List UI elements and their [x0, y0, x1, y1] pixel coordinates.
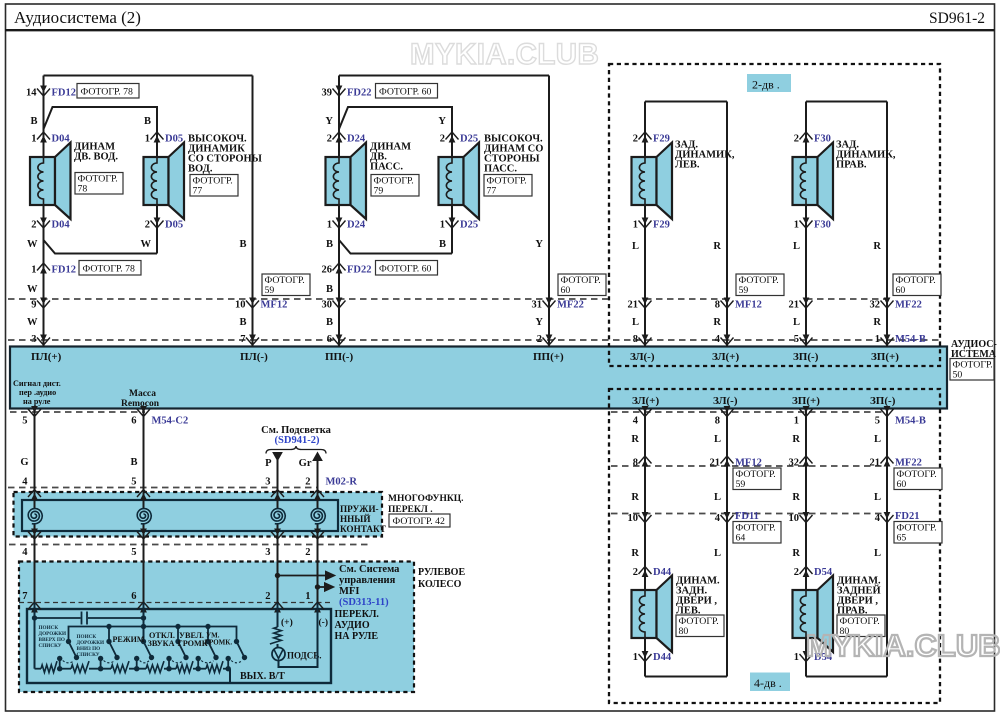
wire remote signal G	[34, 409, 36, 493]
connector MF22 pin 31	[543, 301, 556, 309]
node on P wire to MFI	[275, 573, 280, 578]
svg-text:L: L	[714, 434, 721, 445]
svg-text:79: 79	[374, 186, 384, 197]
svg-text:B: B	[144, 116, 151, 127]
feed drop УВЕЛ ГРОМК	[177, 627, 179, 642]
svg-text:Y: Y	[535, 317, 543, 328]
svg-text:1: 1	[633, 220, 638, 231]
connector M54 pin 9	[37, 301, 50, 309]
svg-text:L: L	[714, 548, 721, 559]
connector D24 pin 1	[333, 221, 346, 229]
steering wheel dashed box	[19, 562, 414, 693]
svg-text:65: 65	[897, 533, 907, 544]
multifunction pin 3 top	[271, 490, 284, 498]
switch S4 contact tap	[168, 659, 170, 669]
svg-text:2: 2	[794, 134, 799, 145]
svg-text:MF22: MF22	[557, 300, 584, 311]
svg-text:2: 2	[633, 134, 638, 145]
switch S1 gap arc	[63, 661, 74, 663]
svg-text:R: R	[631, 492, 639, 503]
multifunction pin 4 bottom	[28, 532, 41, 540]
svg-text:8: 8	[633, 334, 638, 345]
svg-text:FD21: FD21	[895, 511, 920, 522]
harness dashed line y299	[8, 298, 611, 300]
speaker D44 rear left door	[632, 590, 657, 638]
svg-text:D05: D05	[165, 134, 183, 145]
connector F30 pin 2	[800, 132, 813, 140]
svg-text:Gr: Gr	[299, 458, 312, 469]
svg-text:B: B	[439, 239, 446, 250]
svg-text:77: 77	[193, 186, 203, 197]
svg-text:1: 1	[875, 334, 880, 345]
connector MF22 pin 21 4dv	[881, 456, 894, 464]
connector MF12 pin 21 2dv	[639, 301, 652, 309]
svg-text:64: 64	[736, 533, 746, 544]
svg-text:21: 21	[789, 300, 800, 311]
svg-text:F30: F30	[814, 220, 831, 231]
svg-text:Y: Y	[438, 116, 446, 127]
svg-text:D05: D05	[165, 220, 183, 231]
bus pin 1 M54-B	[881, 338, 894, 346]
svg-text:ФОТОГР. 42: ФОТОГР. 42	[393, 516, 446, 527]
svg-text:5: 5	[794, 334, 799, 345]
resistor R lamp	[270, 627, 281, 644]
bus pin 6	[333, 338, 346, 346]
svg-text:ВОД.: ВОД.	[188, 164, 213, 175]
svg-text:B: B	[239, 239, 246, 250]
svg-text:(-): (-)	[319, 617, 329, 628]
svg-text:D44: D44	[653, 567, 672, 578]
harness dashed line y412 right	[611, 411, 888, 413]
svg-text:1: 1	[794, 652, 799, 663]
svg-text:W: W	[141, 239, 152, 250]
svg-text:MF22: MF22	[895, 300, 922, 311]
svg-text:60: 60	[561, 285, 571, 296]
photo box D44	[676, 615, 724, 637]
wire remocon ground B	[143, 409, 145, 493]
svg-text:на руле: на руле	[23, 397, 51, 406]
bus pin 3	[37, 338, 50, 346]
svg-text:АУДИО: АУДИО	[335, 620, 370, 631]
svg-text:M02-R: M02-R	[326, 477, 358, 488]
brace under Подсветка note	[266, 446, 326, 454]
resistor R6	[206, 661, 223, 672]
svg-text:L: L	[714, 492, 721, 503]
svg-text:26: 26	[322, 265, 333, 276]
svg-text:F29: F29	[653, 134, 670, 145]
svg-text:L: L	[793, 241, 800, 252]
svg-text:FD22: FD22	[347, 265, 372, 276]
steering pin 7	[28, 602, 41, 610]
connector FD11 pin 10	[639, 515, 652, 523]
svg-text:B: B	[326, 239, 333, 250]
feed drop УМ ГРОМК	[207, 627, 209, 642]
wire front-right return ПП(+)	[548, 76, 550, 347]
speaker D24 front door passenger	[326, 157, 351, 205]
svg-text:3: 3	[265, 547, 270, 558]
wire front-left speaker minus join	[43, 205, 45, 347]
svg-text:2-дв .: 2-дв .	[752, 78, 780, 92]
harness dashed line y544	[9, 544, 369, 546]
multifunction switch box	[14, 492, 383, 537]
svg-text:4: 4	[715, 513, 721, 524]
switch S1 blade	[69, 642, 77, 658]
svg-text:2: 2	[633, 567, 638, 578]
bus pin 7	[246, 338, 259, 346]
svg-text:ГРОМК.: ГРОМК.	[205, 639, 233, 647]
photo box 42	[389, 514, 450, 527]
svg-text:КОНТАКТ: КОНТАКТ	[340, 524, 386, 534]
node B wire 6	[143, 603, 145, 642]
connector D25 pin 1	[446, 221, 459, 229]
svg-text:L: L	[874, 492, 881, 503]
svg-text:D04: D04	[52, 134, 71, 145]
svg-text:РУЛЕВОЕ: РУЛЕВОЕ	[418, 567, 465, 578]
connector F29 pin 1	[639, 221, 652, 229]
steering box inner dashed line	[19, 602, 330, 604]
svg-text:R: R	[873, 317, 881, 328]
svg-text:ННЫЙ: ННЫЙ	[340, 514, 370, 524]
bus pin 5	[800, 338, 813, 346]
bus pin 2	[543, 338, 556, 346]
svg-text:2: 2	[305, 477, 310, 488]
svg-text:14: 14	[26, 88, 37, 99]
svg-text:1: 1	[440, 220, 445, 231]
lamp feed wire	[277, 603, 279, 627]
svg-text:ЗП(-): ЗП(-)	[793, 351, 819, 363]
svg-text:B: B	[239, 317, 246, 328]
svg-text:78: 78	[78, 184, 88, 195]
photo box D24	[371, 175, 419, 197]
svg-text:НА РУЛЕ: НА РУЛЕ	[335, 631, 379, 642]
connector MF22 pin 21 2dv	[800, 301, 813, 309]
svg-text:(+): (+)	[281, 617, 293, 628]
resistor R1	[41, 661, 57, 672]
svg-text:60: 60	[897, 479, 907, 490]
switch S2 contact tap	[100, 659, 102, 669]
wire rear-right-door 4dv	[805, 409, 807, 591]
multifunction pin 5 bottom	[137, 532, 150, 540]
bus exit pin 8 4dv	[721, 409, 734, 417]
svg-text:1: 1	[31, 134, 36, 145]
bus exit pin 1 4dv	[800, 409, 813, 417]
svg-text:L: L	[793, 317, 800, 328]
connector F30 pin 1	[800, 221, 813, 229]
bus exit pin 4 4dv	[639, 409, 652, 417]
photo box MF12 front	[262, 274, 310, 296]
svg-text:FD12: FD12	[52, 88, 77, 99]
svg-text:2: 2	[794, 567, 799, 578]
wire front-right top run	[339, 75, 549, 77]
svg-text:ЗВУКА: ЗВУКА	[148, 639, 175, 648]
steering pin 6	[137, 602, 150, 610]
steering pin 2	[271, 602, 284, 610]
svg-text:L: L	[632, 241, 639, 252]
svg-text:4: 4	[22, 547, 28, 558]
arrow to Подсветка up	[313, 453, 322, 461]
svg-text:R: R	[631, 548, 639, 559]
speaker D25 tweeter passenger side	[439, 157, 464, 205]
svg-text:9: 9	[31, 300, 36, 311]
svg-text:См. Система: См. Система	[339, 564, 400, 575]
svg-text:G: G	[20, 457, 28, 468]
wire illumination Gr	[317, 455, 319, 492]
connector FD21 pin 10	[800, 515, 813, 523]
speaker F29 rear left	[632, 157, 657, 205]
resistor R4	[146, 661, 164, 672]
svg-text:21: 21	[710, 458, 721, 469]
svg-text:M54-B: M54-B	[895, 416, 926, 427]
svg-text:1: 1	[31, 265, 36, 276]
bus exit pin 5 left	[28, 409, 41, 417]
svg-text:FD11: FD11	[735, 511, 759, 522]
connector D25 pin 2	[446, 132, 459, 140]
svg-text:ЗЛ(+): ЗЛ(+)	[712, 351, 739, 363]
switch S5 contact tap	[197, 659, 199, 669]
svg-text:30: 30	[322, 300, 333, 311]
photo box 50	[950, 359, 994, 381]
photo box MF12 2dv	[736, 274, 784, 296]
wire front-right branch to tweeter	[339, 107, 452, 157]
svg-text:M54-C2: M54-C2	[152, 416, 189, 427]
connector D05 pin 2	[151, 221, 164, 229]
speaker D04 front door driver	[30, 157, 55, 205]
harness dashed line y412 left	[10, 411, 145, 413]
connector MF12 pin 10	[246, 301, 259, 309]
switch S5 blade	[208, 642, 216, 658]
node on Gr wire to MFI	[315, 584, 320, 589]
connector FD12 pin 14	[37, 89, 50, 97]
harness dashed line y513	[611, 513, 888, 515]
wire rear-left-door 4dv	[644, 409, 646, 591]
switch S4 gap arc	[172, 661, 184, 663]
svg-text:ДВ. ВОД.: ДВ. ВОД.	[74, 152, 118, 163]
svg-text:8: 8	[715, 416, 720, 427]
svg-text:B: B	[326, 284, 333, 295]
multifunction pin 2 top M02-R	[311, 490, 324, 498]
wire front-left top run	[44, 75, 253, 77]
svg-text:21: 21	[870, 458, 881, 469]
arrow see MFI system upper	[278, 575, 327, 577]
arrow see MFI system lower	[318, 586, 326, 588]
photo box D04	[75, 173, 123, 195]
wire front-left return ПЛ(-)	[252, 76, 254, 347]
svg-text:ФОТОГР. 78: ФОТОГР. 78	[83, 264, 136, 275]
connector MF22 pin 32 2dv	[881, 301, 894, 309]
bus pin 4	[721, 338, 734, 346]
svg-text:W: W	[27, 317, 38, 328]
svg-text:80: 80	[679, 626, 689, 637]
svg-text:2: 2	[265, 591, 270, 602]
svg-text:D25: D25	[460, 220, 478, 231]
photo box D25	[484, 175, 532, 197]
svg-text:MF12: MF12	[735, 458, 762, 469]
svg-text:21: 21	[628, 300, 639, 311]
svg-text:8: 8	[633, 458, 638, 469]
resistor R3	[111, 661, 129, 672]
svg-text:пер .аудио: пер .аудио	[19, 388, 56, 397]
spring contact coil 2	[137, 509, 151, 525]
switch S2 gap arc	[104, 661, 115, 663]
svg-text:2: 2	[145, 220, 150, 231]
svg-text:32: 32	[870, 300, 881, 311]
svg-text:R: R	[792, 492, 800, 503]
svg-text:6: 6	[131, 416, 136, 427]
switch S4 blade	[178, 642, 186, 658]
node A wire 7	[34, 603, 36, 618]
svg-text:ЗП(+): ЗП(+)	[871, 351, 899, 363]
harness dashed line y340	[8, 339, 940, 341]
harness dashed line y464	[611, 465, 888, 467]
svg-text:ПОДСВ.: ПОДСВ.	[287, 651, 322, 661]
svg-text:Remocon: Remocon	[121, 399, 160, 409]
svg-text:MF12: MF12	[735, 300, 762, 311]
svg-text:77: 77	[487, 186, 497, 197]
photo box FD12 top	[77, 84, 139, 99]
svg-text:ПЛ(-): ПЛ(-)	[240, 351, 268, 363]
feed drop РЕЖИМ	[108, 627, 110, 642]
bus pin 8	[639, 338, 652, 346]
svg-text:ФОТОГР. 60: ФОТОГР. 60	[379, 264, 432, 275]
capacitor C1	[35, 617, 81, 619]
svg-text:ПЕРЕКЛ.: ПЕРЕКЛ.	[335, 609, 380, 620]
svg-text:SD961-2: SD961-2	[929, 10, 985, 27]
connector D05 pin 1	[151, 132, 164, 140]
switch S6 contact tap	[227, 659, 229, 669]
svg-text:Y: Y	[535, 239, 543, 250]
spring contact inner box	[22, 500, 338, 531]
svg-text:Сигнал дист.: Сигнал дист.	[13, 379, 61, 388]
svg-text:СПИСКУ: СПИСКУ	[77, 652, 100, 658]
svg-text:4: 4	[633, 416, 639, 427]
svg-text:R: R	[713, 241, 721, 252]
feed drop ОТКЛ ЗВУКА	[141, 624, 146, 629]
speaker D54 rear right door	[793, 590, 818, 638]
svg-text:4: 4	[715, 334, 721, 345]
svg-text:M54-B: M54-B	[895, 334, 926, 345]
svg-text:10: 10	[789, 513, 800, 524]
svg-text:R: R	[873, 241, 881, 252]
svg-text:Аудиосистема (2): Аудиосистема (2)	[14, 8, 141, 27]
title separator	[5, 29, 995, 31]
svg-text:R: R	[792, 434, 800, 445]
svg-text:MFI: MFI	[339, 586, 359, 597]
photo box MF22 4dv	[894, 468, 942, 490]
wire front-right speaker minus join	[338, 205, 340, 347]
photo box MF22 front	[558, 274, 606, 296]
svg-text:РЕЖИМ: РЕЖИМ	[113, 635, 145, 644]
svg-text:СПИСКУ: СПИСКУ	[39, 643, 62, 649]
svg-text:4: 4	[22, 477, 28, 488]
svg-text:B: B	[30, 116, 37, 127]
4-door variant dashed box	[609, 389, 940, 703]
svg-text:F30: F30	[814, 134, 831, 145]
photo box FD22 bottom	[376, 261, 438, 276]
svg-text:управления: управления	[339, 575, 396, 586]
switch S3 contact tap	[136, 659, 138, 669]
svg-text:1: 1	[633, 652, 638, 663]
bus exit pin 5 4dv M54-B	[881, 409, 894, 417]
svg-text:ПАСС.: ПАСС.	[370, 162, 403, 173]
svg-text:5: 5	[131, 547, 136, 558]
svg-text:FD12: FD12	[52, 265, 77, 276]
photo box FD12 bottom	[79, 261, 141, 276]
svg-text:4: 4	[875, 513, 881, 524]
svg-text:B: B	[130, 457, 137, 468]
svg-text:2: 2	[327, 134, 332, 145]
connector M54 pin 30	[333, 301, 346, 309]
svg-text:10: 10	[628, 513, 639, 524]
svg-text:МНОГОФУНКЦ.: МНОГОФУНКЦ.	[388, 494, 464, 504]
svg-text:1: 1	[794, 416, 799, 427]
connector F29 pin 2	[639, 132, 652, 140]
bus exit pin 6 M54-C2	[137, 409, 150, 417]
svg-text:FD22: FD22	[347, 88, 372, 99]
svg-text:D24: D24	[347, 134, 366, 145]
steering audio switch inner box	[27, 609, 331, 683]
resistor R5	[176, 661, 193, 672]
svg-text:59: 59	[739, 285, 749, 296]
connector D54 pin 2	[800, 567, 813, 575]
svg-text:4-дв .: 4-дв .	[754, 676, 782, 690]
connector FD22 pin 39	[333, 89, 346, 97]
lamp ПОДСВ	[272, 648, 285, 661]
svg-text:D04: D04	[52, 220, 71, 231]
svg-text:ПРАВ.: ПРАВ.	[836, 160, 867, 171]
svg-text:2: 2	[537, 334, 542, 345]
svg-text:ФОТОГР. 60: ФОТОГР. 60	[379, 87, 432, 98]
svg-text:MF22: MF22	[895, 458, 922, 469]
connector MF12 pin 8 4dv	[639, 456, 652, 464]
svg-text:(SD941-2): (SD941-2)	[275, 435, 320, 446]
connector FD11 pin 4	[721, 515, 734, 523]
svg-text:31: 31	[532, 300, 543, 311]
svg-text:ГРОМК: ГРОМК	[178, 639, 208, 648]
resistor ladder rail	[35, 668, 42, 670]
svg-text:32: 32	[789, 458, 800, 469]
connector D04 pin 1	[37, 132, 50, 140]
connector MF12 pin 8 2dv	[721, 301, 734, 309]
svg-text:ПАСС.: ПАСС.	[484, 164, 517, 175]
spring contact coil 4	[311, 509, 325, 525]
spring contact coil 1	[28, 509, 42, 525]
svg-text:MF12: MF12	[261, 300, 288, 311]
multifunction pin 3 bottom	[271, 532, 284, 540]
svg-text:ПП(+): ПП(+)	[533, 351, 564, 363]
svg-text:R: R	[792, 548, 800, 559]
svg-text:D25: D25	[460, 134, 478, 145]
photo box D54	[837, 615, 885, 637]
svg-text:ЛЕВ.: ЛЕВ.	[675, 160, 700, 171]
photo box MF12 4dv	[733, 468, 781, 490]
connector MF22 pin 32 4dv	[800, 456, 813, 464]
svg-text:6: 6	[327, 334, 332, 345]
svg-text:8: 8	[715, 300, 720, 311]
spring contact coil 3	[271, 509, 285, 525]
svg-text:ПЛ(+): ПЛ(+)	[31, 351, 62, 363]
switch feed rail	[69, 627, 237, 642]
svg-text:3: 3	[265, 477, 270, 488]
photo box MF22 2dv	[893, 274, 941, 296]
harness dashed line y487	[8, 487, 318, 489]
svg-text:10: 10	[235, 300, 246, 311]
svg-text:R: R	[631, 434, 639, 445]
svg-text:D44: D44	[653, 652, 672, 663]
4-дв label	[750, 673, 790, 692]
connector FD12 pin 1	[37, 263, 50, 271]
left ladder wire	[34, 618, 36, 669]
svg-text:5: 5	[131, 477, 136, 488]
